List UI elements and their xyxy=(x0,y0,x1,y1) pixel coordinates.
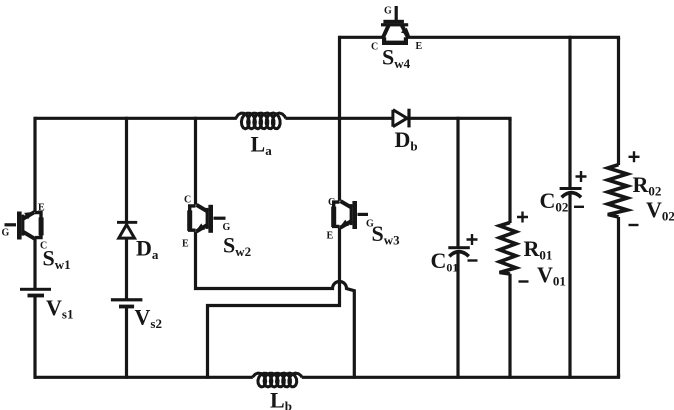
wire bottom rail right of Lb to bottom-right corner xyxy=(302,374,619,377)
wire Da column upper (row2 to Da) xyxy=(125,117,128,221)
wire R02 column upper (top-right corner to R02) xyxy=(617,37,620,165)
battery Vs2 xyxy=(111,298,142,308)
wire row-2 rail: left column to La xyxy=(35,117,237,120)
wire Da column middle (Da to Vs2) xyxy=(125,238,128,299)
svg-text:G: G xyxy=(223,222,231,233)
polarity - of C02 xyxy=(574,206,584,208)
wire left column x=35 middle (Sw1 to Vs1) xyxy=(33,239,36,289)
wire left column x=35 lower (Vs1 to bottom rail) xyxy=(33,297,36,379)
svg-text:C: C xyxy=(184,195,191,206)
polarity + of C02 xyxy=(576,171,587,182)
wire top rail right of Sw4 to top-right corner xyxy=(406,37,619,40)
wire R01 column lower (R01 to bottom rail) xyxy=(508,274,511,379)
diode Db (pointing right) xyxy=(393,109,411,128)
capacitor C01 (polarized) xyxy=(448,246,470,256)
wire left column x=35 upper (row2 to Sw1) xyxy=(33,117,36,212)
wire bottom rail left of Lb xyxy=(34,376,253,379)
polarity + of C01 xyxy=(467,234,478,245)
polarity - of R01 xyxy=(519,280,529,282)
inductor Lb (coil) xyxy=(253,373,302,387)
resistor R02 (zigzag) xyxy=(608,165,628,217)
svg-text:E: E xyxy=(327,231,334,242)
wire Sw2 emitter down, right, hop over Sw3 wire, down to bottom rail xyxy=(196,232,355,379)
wire Sw3 emitter down, left, down to bottom rail xyxy=(208,228,340,379)
transistor Sw1 (IGBT, gate left, emitter top) xyxy=(5,212,44,240)
transistor Sw2 (IGBT, gate right, collector top) xyxy=(187,205,225,233)
wire top rail left of Sw4 xyxy=(340,36,383,39)
polarity - of C01 xyxy=(468,259,478,261)
wire vertical from Sw4 collector down through row-2 cross to Sw3 collector xyxy=(338,36,341,201)
wire C02 column upper (top rail to C02) xyxy=(568,36,571,188)
svg-text:G: G xyxy=(384,6,392,17)
transistor Sw3 (IGBT, gate right, collector top) xyxy=(331,201,368,229)
svg-text:E: E xyxy=(416,41,423,52)
svg-text:C: C xyxy=(371,42,378,53)
wire R02 column lower (R02 to bottom rail) xyxy=(617,217,620,377)
battery Vs1 xyxy=(20,288,51,298)
resistor R01 (zigzag) xyxy=(500,223,517,275)
wire row-2 rail: Db cathode to R01 corner xyxy=(411,118,511,121)
polarity - of R02 xyxy=(629,224,639,226)
wire R01 column upper (corner to R01) xyxy=(508,118,511,223)
wire C01 column upper (row2 to C01) xyxy=(456,117,459,247)
svg-text:G: G xyxy=(2,228,10,239)
capacitor C02 (polarized) xyxy=(560,187,582,197)
wire Sw2 column upper (row2 to Sw2) xyxy=(194,117,197,205)
wire C01 column lower (C01 to bottom rail) xyxy=(456,252,459,379)
wire C02 column lower (C02 to bottom rail) xyxy=(568,193,571,379)
polarity + of R02 xyxy=(629,151,640,162)
svg-text:C: C xyxy=(328,197,335,208)
polarity + of R01 xyxy=(517,212,528,223)
svg-text:E: E xyxy=(182,239,189,250)
transistor Sw4 (IGBT, gate up) xyxy=(381,6,410,45)
diode Da (pointing up, cathode bar top) xyxy=(117,221,137,238)
wire Da column lower (Vs2 to bottom rail) xyxy=(125,308,128,379)
inductor La (coil) xyxy=(236,113,286,129)
wire row-2 rail: La to Db anode xyxy=(285,117,393,120)
svg-text:E: E xyxy=(38,203,45,214)
